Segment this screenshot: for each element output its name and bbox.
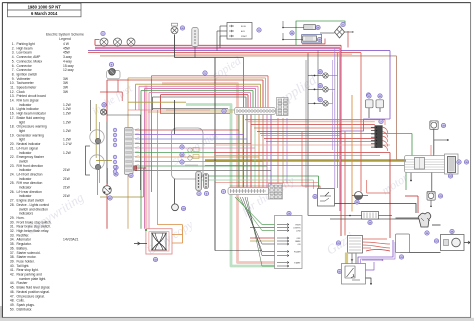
svg-text:switch: switch bbox=[19, 159, 28, 163]
svg-text:Front brake stop switch.: Front brake stop switch. bbox=[17, 220, 52, 224]
svg-text:1.2W: 1.2W bbox=[63, 112, 72, 116]
svg-text:46.: 46. bbox=[10, 290, 15, 294]
svg-text:4-way: 4-way bbox=[63, 59, 72, 63]
svg-text:12-way: 12-way bbox=[63, 68, 74, 72]
svg-text:BLUE: BLUE bbox=[241, 26, 247, 28]
svg-text:Connector, Molex: Connector, Molex bbox=[17, 59, 43, 63]
svg-text:1.2W: 1.2W bbox=[63, 129, 72, 133]
svg-text:Parking light: Parking light bbox=[17, 42, 35, 46]
svg-text:Distributor.: Distributor. bbox=[17, 307, 33, 311]
svg-text:42.: 42. bbox=[10, 273, 15, 277]
svg-text:light: light bbox=[19, 138, 25, 142]
svg-text:18.: 18. bbox=[10, 125, 15, 129]
svg-text:44.: 44. bbox=[10, 281, 15, 285]
svg-text:8.: 8. bbox=[12, 72, 15, 76]
svg-text:15.: 15. bbox=[10, 107, 15, 111]
svg-text:1.: 1. bbox=[12, 42, 15, 46]
svg-text:indicator: indicator bbox=[19, 194, 32, 198]
svg-text:R/H turn signal: R/H turn signal bbox=[17, 99, 39, 103]
svg-text:Ignition switch: Ignition switch bbox=[17, 72, 38, 76]
svg-text:26.: 26. bbox=[10, 190, 15, 194]
svg-text:Neutral position signal.: Neutral position signal. bbox=[17, 290, 50, 294]
svg-text:30.: 30. bbox=[10, 220, 15, 224]
svg-text:19.: 19. bbox=[10, 133, 15, 137]
svg-text:34.: 34. bbox=[10, 238, 15, 242]
svg-text:Voltmeter: Voltmeter bbox=[17, 77, 32, 81]
svg-text:indicators: indicators bbox=[19, 212, 33, 216]
svg-text:21W: 21W bbox=[63, 186, 71, 190]
svg-text:Starter motor.: Starter motor. bbox=[17, 255, 37, 259]
svg-text:High beam flash relay.: High beam flash relay. bbox=[17, 229, 50, 233]
svg-text:25.: 25. bbox=[10, 181, 15, 185]
svg-text:Battery.: Battery. bbox=[17, 246, 28, 250]
svg-text:START: START bbox=[294, 262, 301, 265]
svg-text:24.: 24. bbox=[10, 173, 15, 177]
svg-text:FLASH: FLASH bbox=[294, 251, 301, 254]
svg-text:6 March 2014: 6 March 2014 bbox=[31, 11, 58, 16]
svg-text:1.2W: 1.2W bbox=[63, 138, 72, 142]
svg-text:21.: 21. bbox=[10, 146, 15, 150]
svg-text:21W: 21W bbox=[63, 177, 71, 181]
svg-text:28.: 28. bbox=[10, 203, 15, 207]
svg-text:3-way: 3-way bbox=[63, 55, 72, 59]
svg-text:32.: 32. bbox=[10, 229, 15, 233]
svg-text:Connector, AMP: Connector, AMP bbox=[17, 55, 42, 59]
svg-text:indicator: indicator bbox=[19, 177, 32, 181]
svg-text:14.: 14. bbox=[10, 99, 15, 103]
svg-text:48.: 48. bbox=[10, 299, 15, 303]
svg-text:indicator: indicator bbox=[19, 168, 32, 172]
svg-text:1.2W: 1.2W bbox=[63, 151, 72, 155]
svg-text:50.: 50. bbox=[10, 307, 15, 311]
svg-text:Clock: Clock bbox=[17, 90, 26, 94]
svg-text:Alternator: Alternator bbox=[17, 238, 32, 242]
svg-text:Legend: Legend bbox=[59, 37, 71, 41]
svg-text:LOW: LOW bbox=[296, 231, 301, 233]
svg-text:Coils.: Coils. bbox=[17, 299, 25, 303]
svg-text:Oil pressure warning: Oil pressure warning bbox=[17, 125, 47, 129]
svg-text:23.: 23. bbox=[10, 164, 15, 168]
svg-text:4 W: 4 W bbox=[63, 42, 70, 46]
svg-text:indicator: indicator bbox=[19, 186, 32, 190]
svg-text:PARK: PARK bbox=[295, 240, 301, 243]
svg-text:Lights indicator: Lights indicator bbox=[17, 107, 40, 111]
svg-text:Electric System Scheme: Electric System Scheme bbox=[46, 33, 84, 37]
svg-text:1980 1000 SP NT: 1980 1000 SP NT bbox=[28, 4, 62, 9]
svg-text:1.2 W: 1.2 W bbox=[63, 142, 72, 146]
svg-text:36.: 36. bbox=[10, 246, 15, 250]
svg-text:9.: 9. bbox=[12, 77, 15, 81]
svg-text:Device - Lights control: Device - Lights control bbox=[17, 203, 50, 207]
svg-text:21W: 21W bbox=[63, 194, 71, 198]
svg-text:39.: 39. bbox=[10, 260, 15, 264]
svg-text:Fuse holder.: Fuse holder. bbox=[17, 260, 35, 264]
svg-text:5.: 5. bbox=[12, 59, 15, 63]
svg-text:HIGH: HIGH bbox=[296, 225, 302, 227]
svg-text:Flasher: Flasher bbox=[17, 281, 29, 285]
svg-text:L/H turn signal: L/H turn signal bbox=[17, 146, 39, 150]
svg-text:START: START bbox=[241, 35, 248, 38]
svg-text:12.: 12. bbox=[10, 90, 15, 94]
svg-text:17.: 17. bbox=[10, 116, 15, 120]
svg-text:Brake fluid warning: Brake fluid warning bbox=[17, 116, 45, 120]
svg-text:1.2W: 1.2W bbox=[63, 107, 72, 111]
svg-text:4.: 4. bbox=[12, 55, 15, 59]
svg-text:1.2W: 1.2W bbox=[63, 120, 72, 124]
svg-text:38.: 38. bbox=[10, 255, 15, 259]
svg-text:22.: 22. bbox=[10, 155, 15, 159]
svg-text:21W: 21W bbox=[63, 168, 71, 172]
svg-text:LIGHTS: LIGHTS bbox=[293, 228, 301, 230]
svg-text:Rear parking and: Rear parking and bbox=[17, 273, 42, 277]
svg-text:Generator warning: Generator warning bbox=[17, 133, 44, 137]
svg-text:14V20A21: 14V20A21 bbox=[63, 238, 79, 242]
